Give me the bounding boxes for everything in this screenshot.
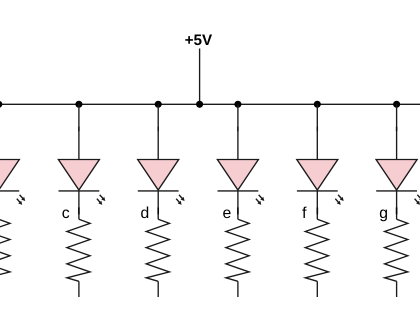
LED f anode pin segment <box>316 127 318 132</box>
wire LED d cathode to resistor <box>157 191 159 219</box>
resistor Rb <box>0 219 10 281</box>
wire bus to LED d anode <box>157 104 159 159</box>
wire bus to LED g anode <box>396 104 398 159</box>
wire LED g cathode to resistor <box>396 191 398 219</box>
LED f triangle (anode top, cathode down) <box>297 160 338 191</box>
wire bus to LED f anode <box>316 104 318 159</box>
resistor Rg <box>385 219 408 281</box>
+5V power label <box>185 35 212 46</box>
LED g anode pin segment <box>396 127 398 132</box>
LED e cathode pin segment <box>237 207 239 214</box>
LED c cathode bar <box>59 190 100 192</box>
LED b light emission arrows <box>17 195 25 205</box>
segment label d <box>141 207 148 219</box>
LED d anode pin segment <box>157 127 159 132</box>
+5V horizontal bus wire <box>0 103 420 105</box>
segment label g <box>380 210 387 222</box>
wire resistor Re to output <box>237 281 239 297</box>
segment label e <box>223 210 230 219</box>
LED b triangle (anode top, cathode down) <box>0 160 19 191</box>
LED b cathode bar <box>0 190 19 192</box>
resistor Re <box>226 219 249 281</box>
wire LED f cathode to resistor <box>316 191 318 219</box>
LED e light emission arrows <box>256 195 264 205</box>
LED e anode pin segment <box>237 127 239 132</box>
LED g triangle (anode top, cathode down) <box>376 160 417 191</box>
wire resistor Rf to output <box>316 281 318 297</box>
wire LED c cathode to resistor <box>78 191 80 219</box>
wire resistor Rc to output <box>78 281 80 297</box>
junction dot at +5V feed <box>196 101 203 108</box>
resistor Rf <box>305 219 328 281</box>
LED c cathode pin segment <box>78 207 80 214</box>
LED c anode pin segment <box>78 127 80 132</box>
LED d cathode pin segment <box>157 207 159 214</box>
junction dot segment e <box>234 101 241 108</box>
wire bus to LED c anode <box>78 104 80 159</box>
junction dot segment g <box>393 101 400 108</box>
LED f light emission arrows <box>335 195 343 205</box>
wire resistor Rg to output <box>396 281 398 297</box>
wire bus to LED e anode <box>237 104 239 159</box>
junction dot segment c <box>75 101 82 108</box>
LED f cathode pin segment <box>316 207 318 214</box>
LED e triangle (anode top, cathode down) <box>217 160 258 191</box>
wire LED e cathode to resistor <box>237 191 239 219</box>
LED g light emission arrows <box>415 195 420 205</box>
junction dot segment b <box>0 101 2 108</box>
LED d light emission arrows <box>176 195 184 205</box>
LED g cathode bar <box>376 190 417 192</box>
LED c light emission arrows <box>97 195 105 205</box>
LED d cathode bar <box>138 190 179 192</box>
resistor Rd <box>146 219 169 281</box>
LED e cathode bar <box>218 190 259 192</box>
LED d triangle (anode top, cathode down) <box>138 160 179 191</box>
segment label f <box>302 207 306 218</box>
junction dot segment f <box>314 101 321 108</box>
LED g cathode pin segment <box>396 207 398 214</box>
resistor Rc <box>67 219 90 281</box>
LED c triangle (anode top, cathode down) <box>58 160 99 191</box>
segment label c <box>62 210 69 219</box>
wire resistor Rd to output <box>157 281 159 297</box>
LED f cathode bar <box>297 190 338 192</box>
junction dot segment d <box>155 101 162 108</box>
wire from +5V label down to bus <box>199 49 201 105</box>
